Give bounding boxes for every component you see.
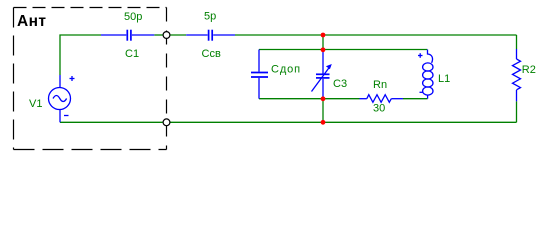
arrowhead of C3 — [326, 64, 332, 69]
wire C3 column bottom green — [322, 99, 324, 123]
wire bottom main node circle to R2 — [169, 121, 516, 123]
wire node circle to Ccв — [170, 34, 187, 36]
svg-text:Rn: Rn — [373, 79, 387, 91]
capacitor Сдоп — [251, 50, 268, 99]
resistor Rn — [360, 95, 404, 103]
wire inner bottom rail right of Rn — [403, 98, 428, 100]
wire R2 column lower — [516, 101, 518, 122]
junction dot inner top rail — [321, 47, 326, 52]
wire inner top rail — [259, 49, 427, 51]
junction dot bottom wire — [321, 120, 326, 125]
wire top main Ccв to R2 corner — [235, 34, 517, 36]
node terminal circle top — [163, 32, 170, 39]
svg-text:C1: C1 — [125, 48, 139, 60]
wire top-left from V1 to C1 — [60, 35, 101, 75]
svg-text:5p: 5p — [204, 11, 216, 23]
junction dot inner bottom rail — [321, 96, 326, 101]
capacitor Ccв — [186, 30, 235, 41]
node terminal circle bottom — [163, 119, 170, 126]
svg-text:50p: 50p — [124, 11, 142, 23]
svg-text:Сдоп: Сдоп — [271, 64, 301, 76]
svg-text:L1: L1 — [438, 73, 450, 85]
variable capacitor C3 — [312, 50, 331, 99]
svg-text:Ант: Ант — [17, 13, 46, 30]
source V1 — [49, 75, 75, 122]
junction dot top wire — [321, 33, 326, 38]
inductor L1 — [418, 50, 433, 99]
wire bottom from V1 to node circle — [60, 121, 163, 123]
wire inner bottom rail left — [259, 98, 360, 100]
antenna dashed box — [14, 8, 167, 150]
svg-text:R2: R2 — [522, 64, 536, 76]
wire R2 column upper — [516, 35, 518, 49]
svg-text:V1: V1 — [29, 98, 42, 110]
resistor R2 — [513, 49, 521, 101]
wire C3 column top green — [322, 35, 324, 50]
capacitor C1 — [101, 30, 154, 41]
svg-text:Ссв: Ссв — [202, 48, 221, 60]
svg-text:C3: C3 — [333, 78, 347, 90]
svg-text:30: 30 — [373, 103, 385, 115]
wire C1 to node circle — [154, 34, 163, 36]
